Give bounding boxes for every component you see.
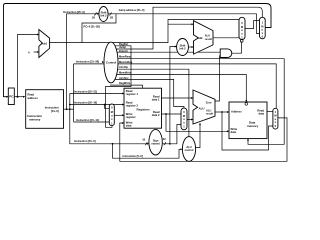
wire read data 2 branch down to data memory write data: [166, 114, 229, 131]
wire RegDst mux output to write register: [114, 112, 124, 119]
wire instruction [31-26] to Control: [74, 60, 105, 67]
adder Add (PC+4): [39, 30, 50, 58]
wire ALUSrc control line to ALUSrc mux select: [115, 79, 184, 108]
wire Zero to AND gate: [215, 56, 220, 101]
wire instruction [20-16] to read register 2 and RegDst mux: [70, 101, 124, 108]
wire instruction [5-0] to ALU control: [113, 144, 183, 158]
wire instruction [15-11] to RegDst mux input 1: [74, 119, 110, 126]
input arrowheads: [6, 13, 249, 151]
wire ALU result to data memory address: [215, 109, 229, 116]
svg-text:Add: Add: [197, 36, 203, 40]
adder Add ALU result (branch): [194, 21, 214, 54]
mux RegDst: [109, 104, 114, 126]
shift left 2 (jump) oval: [99, 7, 108, 22]
wire Branch control line to AND gate: [117, 49, 220, 56]
sign extend oval: [149, 129, 162, 155]
wire shift left 2 to branch adder: [188, 44, 193, 51]
PC register: [8, 88, 14, 105]
wire jump address line from shift-left-2 to jump mux input 1: [108, 14, 260, 34]
wire riser to shift-left-2 handled below: [66, 94, 73, 145]
ALU: [193, 90, 215, 124]
mux jump: [260, 17, 266, 39]
mux branch (PCSrc): [239, 17, 245, 39]
registers block: [124, 88, 162, 128]
mux MemtoReg: [273, 108, 278, 129]
wire ALUSrc mux output to ALU: [187, 116, 193, 123]
mux ALUSrc: [181, 108, 187, 130]
wire MemWrite control line to data memory top: [116, 75, 246, 103]
wire read data 2 to ALUSrc mux input 0: [162, 111, 182, 118]
wire RegWrite control line to registers: [110, 85, 143, 88]
wire write back from mem mux to registers write data: [120, 118, 287, 161]
wire MemRead control line to data memory bottom: [118, 59, 284, 145]
node PC output junction: [17, 96, 19, 98]
wire PC+4 [31-28] tap joining jump address: [82, 14, 116, 43]
svg-text:Add: Add: [41, 42, 47, 46]
wire instruction [25-21] to read register 1: [70, 90, 124, 97]
wire constant 4 into Add: [34, 49, 39, 56]
wire branch mux output to jump mux input 0: [245, 21, 260, 29]
wire stub into RegDst mux input 0: [105, 105, 110, 109]
bit width 16: [145, 142, 147, 145]
wire PC+4 from Add to mux 0 input with branch-adder tap: [50, 20, 239, 43]
wire instruction bus connector from memory output: [64, 106, 74, 113]
bit width 26: [95, 13, 97, 16]
svg-text:ALU: ALU: [199, 107, 205, 111]
wire ALUOp control line to ALU control: [118, 69, 189, 137]
AND gate branch: [220, 49, 232, 58]
wire read data 1 to ALU: [162, 95, 194, 102]
wire ALU control output to ALU: [196, 123, 200, 147]
node select junction ring: [240, 40, 243, 43]
shift left 2 (branch) oval: [177, 39, 189, 56]
wire branch up to shift left 2: [170, 47, 177, 144]
data memory: [229, 102, 267, 139]
wire read data to mem mux input 1: [267, 108, 273, 115]
bit width 32: [164, 142, 166, 145]
wire tap into branch adder top input: [168, 21, 194, 28]
wire new PC loop from jump mux output around top and left into PC: [4, 4, 272, 97]
wire branch adder output to mux input 1: [213, 34, 239, 41]
wire instruction [15-0] to sign extend: [70, 140, 149, 147]
ALU control oval: [182, 137, 195, 162]
svg-text:memory: memory: [29, 117, 41, 121]
wire AND output to branch mux select: [232, 42, 242, 54]
wire PC output to instruction memory and up to Add: [14, 93, 25, 100]
svg-text:Control: Control: [106, 61, 116, 65]
control unit oval: [104, 42, 118, 83]
wire RegDst control line down to RegDst mux: [106, 46, 132, 128]
wire Jump control line from Control up and right into top of jump mux: [116, 7, 262, 49]
wire sign extend output to ALUSrc mux input 1 and shift left 2: [162, 125, 181, 144]
svg-text:memory: memory: [247, 124, 259, 128]
wire MemtoReg control line to mem mux select: [118, 64, 276, 109]
wire ALU result branch down to mem mux input 0: [222, 112, 273, 150]
svg-text:Registers: Registers: [137, 107, 151, 111]
bit width 28: [110, 13, 112, 16]
wire instruction [25-0] up from instruction bus to shift-left-2: [67, 14, 99, 109]
instruction memory: [26, 90, 64, 129]
